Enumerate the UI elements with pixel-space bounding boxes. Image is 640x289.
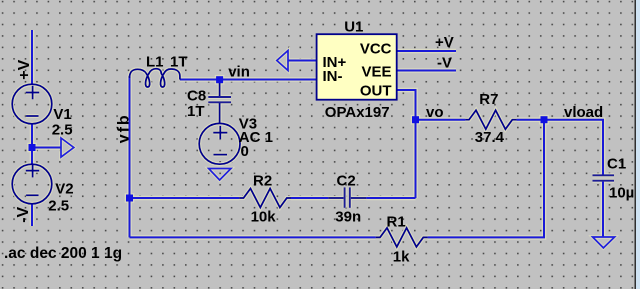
svg-text:L1: L1 (146, 54, 164, 71)
svg-text:C1: C1 (607, 156, 626, 173)
svg-text:R2: R2 (253, 172, 272, 189)
svg-text:V1: V1 (53, 106, 71, 123)
svg-text:1T: 1T (187, 103, 205, 120)
svg-text:37.4: 37.4 (475, 129, 505, 146)
svg-text:C2: C2 (337, 172, 356, 189)
svg-text:0: 0 (241, 143, 249, 160)
svg-text:VEE: VEE (361, 64, 391, 81)
svg-text:10k: 10k (251, 209, 277, 226)
svg-text:OUT: OUT (360, 82, 392, 99)
svg-text:2.5: 2.5 (48, 198, 69, 215)
svg-text:V2: V2 (55, 180, 73, 197)
svg-text:1T: 1T (170, 54, 188, 71)
svg-text:R7: R7 (479, 91, 498, 108)
svg-text:vload: vload (564, 104, 603, 121)
svg-text:VCC: VCC (360, 40, 392, 57)
svg-text:1k: 1k (393, 249, 410, 266)
svg-text:vfb: vfb (116, 113, 133, 143)
svg-text:R1: R1 (387, 214, 406, 231)
svg-text:U1: U1 (344, 18, 363, 35)
svg-text:vo: vo (426, 104, 444, 121)
svg-text:vin: vin (228, 64, 250, 81)
svg-text:OPAx197: OPAx197 (325, 104, 390, 121)
svg-text:+V: +V (16, 59, 33, 79)
svg-text:2.5: 2.5 (52, 121, 73, 138)
svg-text:IN-: IN- (323, 68, 343, 85)
svg-text:.ac dec 200 1 1g: .ac dec 200 1 1g (4, 245, 122, 262)
svg-text:-V: -V (15, 206, 32, 222)
svg-text:+V: +V (435, 34, 454, 51)
svg-text:-V: -V (437, 55, 452, 72)
svg-text:10µ: 10µ (609, 185, 634, 202)
svg-text:39n: 39n (335, 209, 361, 226)
